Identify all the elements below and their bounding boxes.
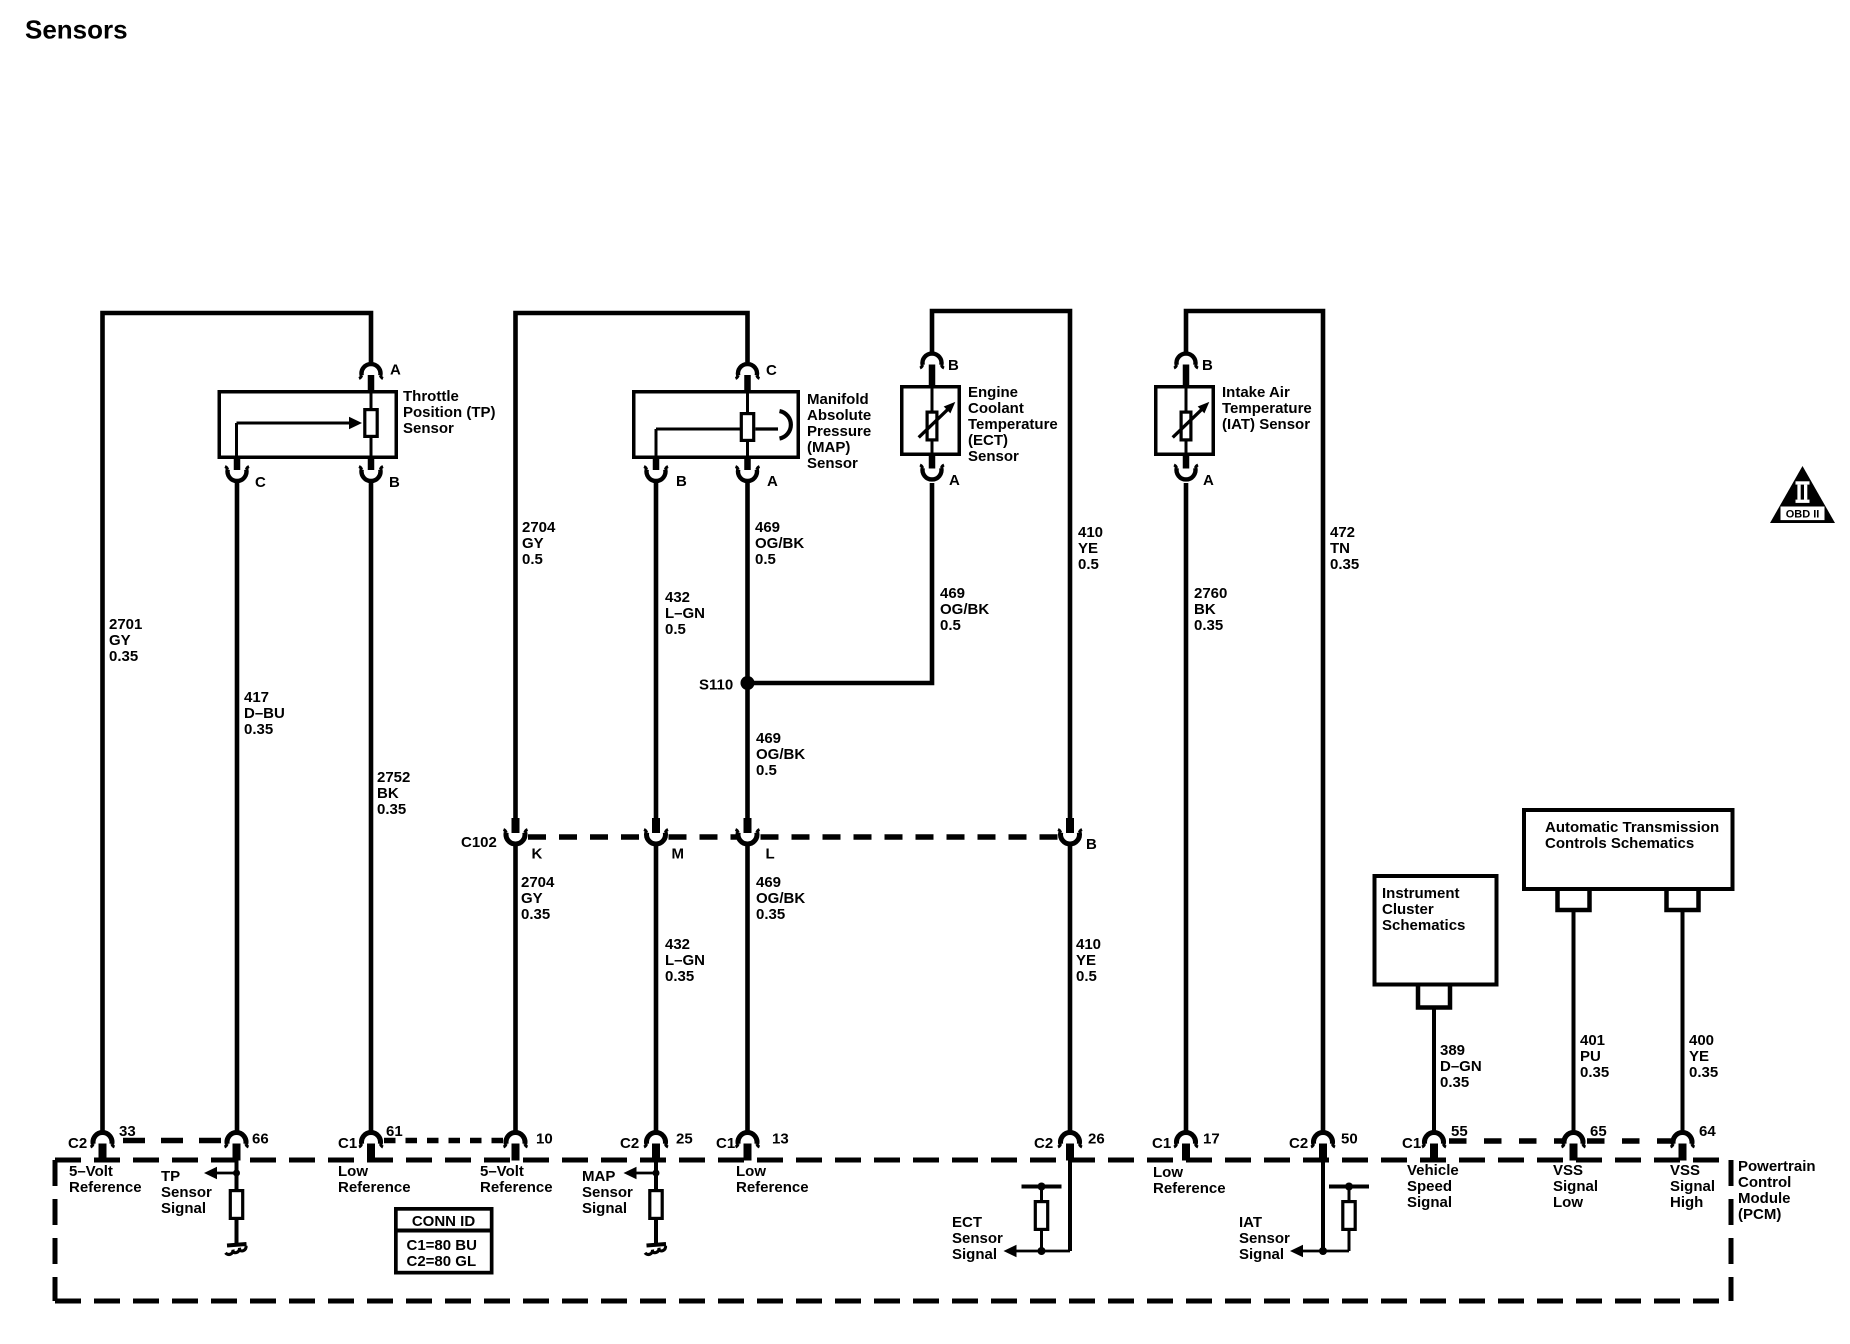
- svg-text:L–GN: L–GN: [665, 952, 705, 969]
- wire label 472 TN 0.35: [1330, 524, 1359, 573]
- pin B connector TP sensor: [359, 459, 383, 481]
- svg-text:Sensors: Sensors: [25, 15, 128, 45]
- ECT sensor signal arrow: [1004, 1245, 1071, 1257]
- label 5-Volt Reference (pin 10): [480, 1163, 553, 1196]
- C102 pin B: [1058, 818, 1082, 844]
- label Vehicle Speed Signal: [1407, 1162, 1459, 1211]
- svg-text:0.5: 0.5: [665, 621, 686, 638]
- svg-text:(MAP): (MAP): [807, 439, 850, 456]
- svg-text:401: 401: [1580, 1032, 1605, 1049]
- PCM module dashed border: [55, 1160, 1731, 1301]
- label Powertrain Control Module (PCM): [1738, 1158, 1816, 1223]
- svg-text:5–Volt: 5–Volt: [69, 1163, 113, 1180]
- dashed connector face C2 (33-66): [123, 1138, 222, 1144]
- Automatic Transmission Controls Schematics box: [1524, 810, 1733, 889]
- TP sensor signal arrow: [204, 1167, 240, 1179]
- svg-text:Signal: Signal: [1670, 1178, 1715, 1195]
- MAP internal wiper line: [656, 429, 740, 459]
- wire C102-L to pin 13: [745, 846, 750, 1131]
- OBD II marker symbol: [1770, 466, 1835, 523]
- TP internal resistor element: [365, 390, 377, 459]
- svg-text:Low: Low: [1153, 1164, 1183, 1181]
- pin C connector MAP sensor: [736, 364, 760, 390]
- wire ECT loop (pin B up over down to C102-B): [932, 311, 1070, 818]
- wire label 2704 GY 0.5: [522, 519, 556, 568]
- svg-text:Low: Low: [1553, 1194, 1583, 1211]
- svg-text:OG/BK: OG/BK: [756, 890, 805, 907]
- svg-text:C2: C2: [620, 1135, 639, 1152]
- svg-text:Instrument: Instrument: [1382, 885, 1460, 902]
- svg-text:5–Volt: 5–Volt: [480, 1163, 524, 1180]
- PCM pin 64 connector: [1671, 1133, 1695, 1161]
- svg-text:Pressure: Pressure: [807, 423, 871, 440]
- svg-text:Reference: Reference: [480, 1179, 553, 1196]
- svg-text:MAP: MAP: [582, 1168, 615, 1185]
- label TP Sensor Signal: [161, 1168, 212, 1217]
- pin A connector ECT sensor: [920, 456, 944, 479]
- label Manifold Absolute Pressure (MAP) Sensor: [807, 391, 871, 472]
- label Low Reference (pin 61): [338, 1163, 411, 1196]
- svg-text:OG/BK: OG/BK: [756, 746, 805, 763]
- svg-text:61: 61: [386, 1123, 403, 1140]
- wire label 389 D-GN 0.35: [1440, 1042, 1482, 1091]
- svg-text:66: 66: [252, 1131, 269, 1148]
- svg-text:C2: C2: [68, 1135, 87, 1152]
- svg-text:Intake Air: Intake Air: [1222, 384, 1290, 401]
- svg-text:33: 33: [119, 1123, 136, 1140]
- svg-text:Controls Schematics: Controls Schematics: [1545, 835, 1694, 852]
- svg-text:400: 400: [1689, 1032, 1714, 1049]
- svg-text:64: 64: [1699, 1123, 1716, 1140]
- svg-text:A: A: [390, 362, 401, 379]
- wire label 410 YE 0.5 (above C102): [1078, 524, 1103, 573]
- svg-text:Cluster: Cluster: [1382, 901, 1434, 918]
- svg-text:C: C: [766, 362, 777, 379]
- svg-text:Signal: Signal: [952, 1246, 997, 1263]
- svg-text:469: 469: [755, 519, 780, 536]
- wire label 400 YE 0.35: [1689, 1032, 1718, 1081]
- svg-text:65: 65: [1590, 1123, 1607, 1140]
- dashed connector face C1 (61-10): [384, 1138, 503, 1144]
- svg-text:469: 469: [756, 730, 781, 747]
- label Low Reference (pin 17): [1153, 1164, 1226, 1197]
- svg-text:25: 25: [676, 1131, 693, 1148]
- svg-text:A: A: [767, 473, 778, 490]
- pin B connector MAP sensor: [644, 459, 668, 481]
- MAP sensor box: [634, 392, 799, 458]
- ground (MAP signal): [645, 1244, 666, 1254]
- svg-text:C1: C1: [338, 1135, 357, 1152]
- label ECT Sensor Signal: [952, 1214, 1003, 1263]
- svg-text:BK: BK: [1194, 601, 1216, 618]
- svg-text:13: 13: [772, 1131, 789, 1148]
- wire label 432 L-GN 0.5: [665, 589, 705, 638]
- pin B connector ECT sensor: [920, 354, 944, 385]
- svg-text:0.5: 0.5: [1076, 968, 1097, 985]
- label Instrument Cluster Schematics: [1382, 885, 1465, 934]
- svg-text:B: B: [389, 474, 400, 491]
- svg-text:Low: Low: [338, 1163, 368, 1180]
- svg-text:C1: C1: [1402, 1135, 1421, 1152]
- svg-text:C1: C1: [1152, 1135, 1171, 1152]
- PCM pin 65 connector: [1562, 1133, 1586, 1161]
- svg-text:B: B: [948, 357, 959, 374]
- svg-text:(PCM): (PCM): [1738, 1206, 1781, 1223]
- svg-text:Vehicle: Vehicle: [1407, 1162, 1459, 1179]
- svg-text:Reference: Reference: [69, 1179, 142, 1196]
- wire IAT signal (pin A to C1-17): [1184, 483, 1189, 1131]
- svg-text:0.35: 0.35: [1194, 617, 1223, 634]
- svg-text:469: 469: [756, 874, 781, 891]
- PCM pin 61 connector: [359, 1133, 383, 1161]
- svg-text:TP: TP: [161, 1168, 180, 1185]
- C102 pin L: [736, 818, 760, 844]
- svg-text:GY: GY: [521, 890, 543, 907]
- svg-text:GY: GY: [522, 535, 544, 552]
- svg-text:L–GN: L–GN: [665, 605, 705, 622]
- svg-text:Reference: Reference: [1153, 1180, 1226, 1197]
- wire S110 to C102-L: [745, 683, 750, 818]
- svg-text:26: 26: [1088, 1131, 1105, 1148]
- IAT thermistor element: [1173, 385, 1210, 456]
- MAP sensor signal arrow: [624, 1167, 660, 1179]
- svg-text:C2: C2: [1289, 1135, 1308, 1152]
- pin A connector MAP sensor: [736, 459, 760, 481]
- MAP internal resistor element: [741, 390, 753, 459]
- wire S110 to ECT pin A: [748, 483, 933, 683]
- svg-text:(ECT): (ECT): [968, 432, 1008, 449]
- svg-text:0.35: 0.35: [1440, 1074, 1469, 1091]
- svg-text:Reference: Reference: [736, 1179, 809, 1196]
- svg-text:417: 417: [244, 689, 269, 706]
- wire C102-K to pin 10: [513, 846, 518, 1131]
- svg-text:0.5: 0.5: [756, 762, 777, 779]
- wire label 469 OG/BK 0.5 (below S110): [756, 730, 805, 779]
- svg-text:Signal: Signal: [582, 1200, 627, 1217]
- svg-text:Coolant: Coolant: [968, 400, 1024, 417]
- TP signal pull resistor to ground: [230, 1160, 242, 1244]
- wire label 432 L-GN 0.35: [665, 936, 705, 985]
- MAP signal pull resistor to ground: [650, 1160, 662, 1244]
- wire ATC to pin 65: [1572, 910, 1576, 1131]
- svg-text:C2: C2: [1034, 1135, 1053, 1152]
- PCM pin 10 connector: [504, 1133, 528, 1161]
- wire label 417 D-BU 0.35: [244, 689, 285, 738]
- svg-text:2752: 2752: [377, 769, 410, 786]
- svg-text:50: 50: [1341, 1131, 1358, 1148]
- svg-text:Schematics: Schematics: [1382, 917, 1465, 934]
- wire label 469 OG/BK 0.5 (above S110): [755, 519, 804, 568]
- wire label 2752 BK 0.35: [377, 769, 410, 818]
- svg-text:Signal: Signal: [1239, 1246, 1284, 1263]
- svg-text:CONN ID: CONN ID: [412, 1213, 476, 1230]
- wire C102-M to pin 25: [654, 846, 659, 1131]
- ECT sensor box: [902, 387, 960, 455]
- svg-text:Sensor: Sensor: [807, 455, 858, 472]
- svg-text:IAT: IAT: [1239, 1214, 1262, 1231]
- svg-text:389: 389: [1440, 1042, 1465, 1059]
- svg-text:Automatic Transmission: Automatic Transmission: [1545, 819, 1719, 836]
- IAT sensor box: [1156, 387, 1214, 455]
- MAP pressure port symbol: [755, 411, 791, 439]
- svg-text:B: B: [1202, 357, 1213, 374]
- PCM pin 25 connector: [644, 1133, 668, 1161]
- connector C102 dashed line: [528, 834, 1058, 840]
- svg-text:B: B: [1086, 836, 1097, 853]
- wire MAP low reference (pin A to S110): [745, 483, 750, 683]
- wire MAP signal (pin B to C102-M): [654, 483, 659, 818]
- svg-text:C1=80 BU: C1=80 BU: [407, 1237, 477, 1254]
- label Intake Air Temperature (IAT) Sensor: [1222, 384, 1312, 433]
- svg-text:469: 469: [940, 585, 965, 602]
- svg-text:C2=80 GL: C2=80 GL: [407, 1253, 477, 1270]
- svg-text:410: 410: [1076, 936, 1101, 953]
- svg-text:ECT: ECT: [952, 1214, 982, 1231]
- wire instrument cluster to C1-55: [1432, 1008, 1436, 1132]
- label MAP Sensor Signal: [582, 1168, 633, 1217]
- label IAT Sensor Signal: [1239, 1214, 1290, 1263]
- ECT internal pull-up resistor: [1022, 1183, 1062, 1256]
- svg-text:OG/BK: OG/BK: [755, 535, 804, 552]
- svg-text:TN: TN: [1330, 540, 1350, 557]
- svg-text:0.35: 0.35: [244, 721, 273, 738]
- svg-text:Module: Module: [1738, 1190, 1791, 1207]
- label VSS Signal Low: [1553, 1162, 1598, 1211]
- svg-text:Engine: Engine: [968, 384, 1018, 401]
- svg-text:0.35: 0.35: [1330, 556, 1359, 573]
- wire TP 5V reference loop (C2-33 up over to pin A): [103, 313, 372, 1131]
- svg-text:YE: YE: [1689, 1048, 1709, 1065]
- svg-text:M: M: [672, 846, 685, 863]
- svg-text:VSS: VSS: [1553, 1162, 1583, 1179]
- TP internal wiper arrow: [237, 417, 363, 459]
- label VSS Signal High: [1670, 1162, 1715, 1211]
- svg-text:Position (TP): Position (TP): [403, 404, 496, 421]
- svg-text:(IAT) Sensor: (IAT) Sensor: [1222, 416, 1310, 433]
- svg-text:432: 432: [665, 936, 690, 953]
- label Throttle Position (TP) Sensor: [403, 388, 496, 437]
- svg-text:472: 472: [1330, 524, 1355, 541]
- svg-text:Signal: Signal: [161, 1200, 206, 1217]
- svg-text:0.35: 0.35: [1580, 1064, 1609, 1081]
- Instrument Cluster Schematics box: [1375, 876, 1497, 985]
- svg-text:C1: C1: [716, 1135, 735, 1152]
- wire label 2760 BK 0.35: [1194, 585, 1227, 634]
- svg-text:2701: 2701: [109, 616, 142, 633]
- wire label 2704 GY 0.35: [521, 874, 555, 923]
- PCM pin 26 connector: [1058, 1133, 1082, 1161]
- svg-text:D–GN: D–GN: [1440, 1058, 1482, 1075]
- ECT thermistor element: [919, 385, 956, 456]
- svg-text:55: 55: [1451, 1123, 1468, 1140]
- svg-text:Sensor: Sensor: [1239, 1230, 1290, 1247]
- ATC right connector tab: [1667, 891, 1699, 910]
- wire TP low reference (pin B to pin 61): [369, 483, 374, 1131]
- label Automatic Transmission Controls Schematics: [1545, 819, 1719, 852]
- svg-text:0.5: 0.5: [1078, 556, 1099, 573]
- svg-text:0.35: 0.35: [1689, 1064, 1718, 1081]
- svg-text:GY: GY: [109, 632, 131, 649]
- label Engine Coolant Temperature (ECT) Sensor: [968, 384, 1058, 465]
- label Low Reference (pin 13): [736, 1163, 809, 1196]
- pin A connector IAT sensor: [1174, 456, 1198, 479]
- svg-text:Sensor: Sensor: [161, 1184, 212, 1201]
- svg-text:YE: YE: [1076, 952, 1096, 969]
- svg-text:0.5: 0.5: [522, 551, 543, 568]
- svg-text:K: K: [532, 846, 543, 863]
- svg-text:Absolute: Absolute: [807, 407, 871, 424]
- IAT internal pull-up resistor: [1329, 1183, 1369, 1252]
- svg-text:S110: S110: [699, 677, 733, 694]
- svg-text:A: A: [949, 472, 960, 489]
- PCM pin 50 connector: [1311, 1133, 1335, 1161]
- pin A connector TP sensor: [359, 364, 383, 390]
- svg-text:OG/BK: OG/BK: [940, 601, 989, 618]
- svg-text:Signal: Signal: [1553, 1178, 1598, 1195]
- svg-text:Signal: Signal: [1407, 1194, 1452, 1211]
- ground (TP signal): [226, 1244, 247, 1254]
- wire label 469 OG/BK 0.35: [756, 874, 805, 923]
- svg-text:B: B: [676, 473, 687, 490]
- svg-text:High: High: [1670, 1194, 1703, 1211]
- svg-text:A: A: [1203, 472, 1214, 489]
- svg-text:Sensor: Sensor: [403, 420, 454, 437]
- wire ATC to pin 64: [1681, 910, 1685, 1131]
- svg-text:432: 432: [665, 589, 690, 606]
- svg-text:Low: Low: [736, 1163, 766, 1180]
- C102 pin M: [644, 818, 668, 844]
- label 5-Volt Reference (pin 33): [69, 1163, 142, 1196]
- svg-text:410: 410: [1078, 524, 1103, 541]
- svg-text:OBD II: OBD II: [1786, 509, 1820, 521]
- svg-text:PU: PU: [1580, 1048, 1601, 1065]
- ECT signal wire down from pin 26: [1068, 1160, 1072, 1251]
- svg-text:0.35: 0.35: [109, 648, 138, 665]
- PCM pin 33 connector: [91, 1133, 115, 1161]
- svg-text:VSS: VSS: [1670, 1162, 1700, 1179]
- svg-text:C: C: [255, 474, 266, 491]
- svg-text:Reference: Reference: [338, 1179, 411, 1196]
- svg-text:0.35: 0.35: [377, 801, 406, 818]
- pin C connector TP sensor: [225, 459, 249, 481]
- svg-text:L: L: [766, 846, 775, 863]
- svg-text:C102: C102: [461, 834, 497, 851]
- PCM pin 13 connector: [736, 1133, 760, 1161]
- svg-text:BK: BK: [377, 785, 399, 802]
- node S110 splice: [741, 676, 755, 690]
- wire label 2701 GY 0.35: [109, 616, 142, 665]
- wire label 410 YE 0.5 (below C102): [1076, 936, 1101, 985]
- PCM pin 66 connector: [225, 1133, 249, 1161]
- svg-text:D–BU: D–BU: [244, 705, 285, 722]
- svg-text:Temperature: Temperature: [1222, 400, 1312, 417]
- svg-text:0.35: 0.35: [665, 968, 694, 985]
- IAT sensor signal arrow: [1290, 1245, 1349, 1257]
- svg-text:0.35: 0.35: [521, 906, 550, 923]
- PCM pin 55 connector: [1422, 1133, 1446, 1161]
- svg-text:Manifold: Manifold: [807, 391, 869, 408]
- svg-text:0.5: 0.5: [940, 617, 961, 634]
- svg-text:Sensor: Sensor: [968, 448, 1019, 465]
- svg-text:Speed: Speed: [1407, 1178, 1452, 1195]
- dashed connector face C1 (55-65-64): [1449, 1138, 1671, 1144]
- svg-text:Throttle: Throttle: [403, 388, 459, 405]
- IAT signal wire down from pin 50: [1321, 1160, 1325, 1251]
- svg-text:Control: Control: [1738, 1174, 1791, 1191]
- svg-text:10: 10: [536, 1131, 553, 1148]
- PCM pin 17 connector: [1174, 1133, 1198, 1161]
- wire label 401 PU 0.35: [1580, 1032, 1609, 1081]
- svg-text:2704: 2704: [522, 519, 556, 536]
- svg-text:0.35: 0.35: [756, 906, 785, 923]
- pin B connector IAT sensor: [1174, 354, 1198, 385]
- wire TP signal (pin C to pin 66): [235, 483, 240, 1131]
- svg-text:Sensor: Sensor: [952, 1230, 1003, 1247]
- svg-text:Powertrain: Powertrain: [1738, 1158, 1816, 1175]
- svg-text:2704: 2704: [521, 874, 555, 891]
- Instrument cluster connector tab: [1418, 987, 1450, 1008]
- throttle position sensor box: [219, 392, 396, 458]
- wire C102-B to pin 26: [1068, 846, 1073, 1131]
- svg-text:0.5: 0.5: [755, 551, 776, 568]
- svg-text:Temperature: Temperature: [968, 416, 1058, 433]
- svg-text:17: 17: [1203, 1131, 1220, 1148]
- wire label 469 OG/BK 0.5 (ECT branch): [940, 585, 989, 634]
- svg-text:2760: 2760: [1194, 585, 1227, 602]
- CONN ID table box: [394, 1209, 494, 1273]
- C102 pin K: [504, 818, 528, 844]
- svg-text:Sensor: Sensor: [582, 1184, 633, 1201]
- ATC left connector tab: [1558, 891, 1590, 910]
- svg-text:YE: YE: [1078, 540, 1098, 557]
- wire MAP 5V reference loop (C102-K up over to pin C): [516, 313, 748, 818]
- wire IAT loop (pin B up over down to C2-50): [1186, 311, 1323, 1131]
